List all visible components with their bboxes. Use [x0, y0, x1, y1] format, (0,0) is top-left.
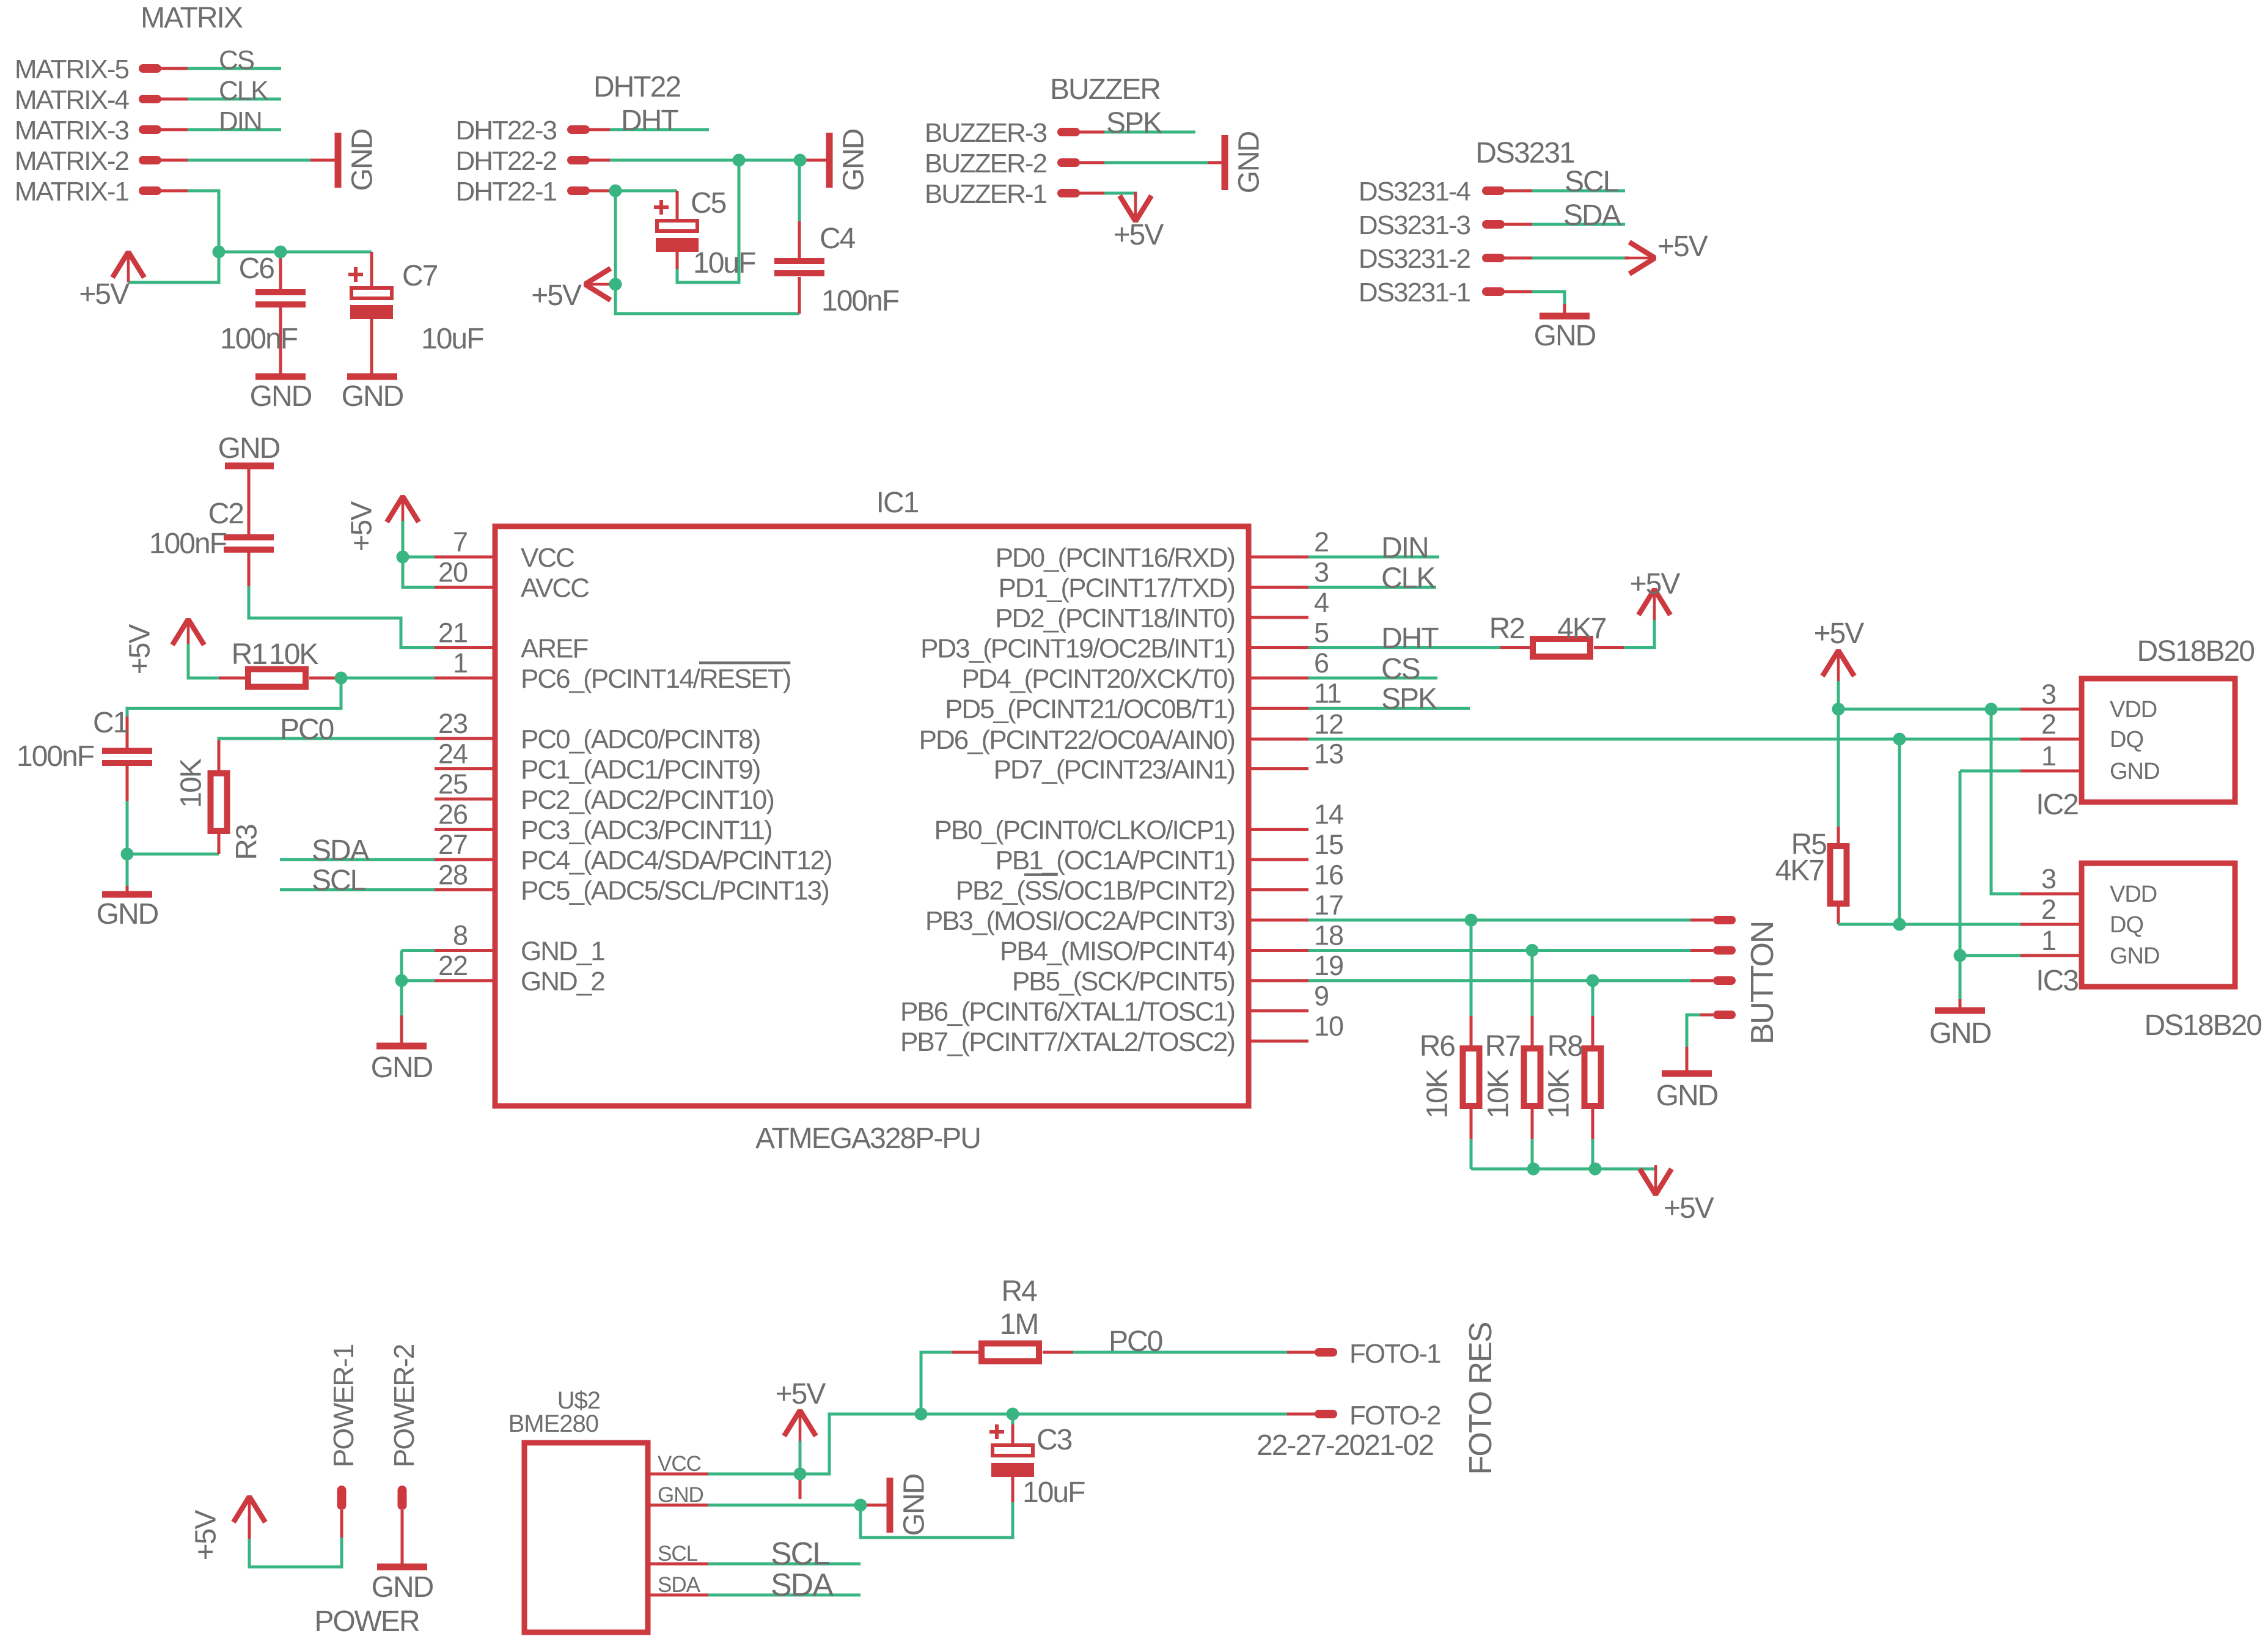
svg-text:17: 17: [1314, 889, 1343, 921]
svg-text:AVCC: AVCC: [521, 573, 589, 603]
svg-text:MATRIX-3: MATRIX-3: [15, 116, 129, 145]
svg-text:PB2_(SS/OC1B/PCINT2): PB2_(SS/OC1B/PCINT2): [956, 876, 1235, 906]
svg-text:GND: GND: [218, 432, 280, 465]
svg-text:R2: R2: [1489, 613, 1525, 645]
svg-text:13: 13: [1314, 738, 1343, 770]
svg-text:GND: GND: [838, 129, 870, 191]
svg-text:28: 28: [438, 860, 468, 891]
svg-text:PC5_(ADC5/SCL/PCINT13): PC5_(ADC5/SCL/PCINT13): [521, 876, 829, 906]
svg-text:GND: GND: [347, 129, 379, 191]
svg-text:100nF: 100nF: [17, 740, 94, 773]
svg-text:3: 3: [1314, 557, 1329, 588]
svg-text:22-27-2021-02: 22-27-2021-02: [1257, 1429, 1433, 1462]
svg-text:GND: GND: [2110, 943, 2159, 969]
svg-text:GND: GND: [2110, 759, 2159, 784]
svg-text:PD4_(PCINT20/XCK/T0): PD4_(PCINT20/XCK/T0): [961, 664, 1235, 694]
svg-text:PC3_(ADC3/PCINT11): PC3_(ADC3/PCINT11): [521, 816, 772, 845]
svg-text:16: 16: [1314, 860, 1343, 891]
svg-text:PD5_(PCINT21/OC0B/T1): PD5_(PCINT21/OC0B/T1): [945, 694, 1235, 724]
svg-text:DS3231-1: DS3231-1: [1359, 278, 1470, 308]
svg-text:3: 3: [2041, 679, 2056, 710]
svg-text:PC6_(PCINT14/RESET): PC6_(PCINT14/RESET): [521, 664, 790, 694]
svg-text:15: 15: [1314, 829, 1343, 860]
svg-text:DS3231-3: DS3231-3: [1359, 210, 1470, 240]
svg-text:18: 18: [1314, 920, 1343, 951]
svg-text:DS18B20: DS18B20: [2137, 635, 2255, 668]
svg-text:100nF: 100nF: [821, 285, 899, 317]
svg-text:DS3231-2: DS3231-2: [1359, 244, 1470, 274]
svg-text:C5: C5: [691, 187, 726, 219]
svg-text:BUZZER-3: BUZZER-3: [925, 118, 1047, 148]
svg-text:PC0_(ADC0/PCINT8): PC0_(ADC0/PCINT8): [521, 724, 760, 754]
svg-text:SPK: SPK: [1106, 107, 1162, 139]
svg-text:11: 11: [1314, 678, 1341, 709]
svg-text:10K: 10K: [1543, 1069, 1576, 1118]
svg-text:DHT22: DHT22: [593, 71, 680, 103]
svg-text:GND: GND: [342, 380, 403, 413]
svg-text:10: 10: [1314, 1011, 1343, 1042]
svg-text:4K7: 4K7: [1775, 855, 1824, 887]
svg-text:VDD: VDD: [2110, 882, 2157, 907]
svg-text:DQ: DQ: [2110, 912, 2143, 938]
svg-text:+5V: +5V: [1114, 219, 1164, 251]
svg-text:C6: C6: [239, 252, 274, 285]
svg-text:10K: 10K: [269, 638, 318, 671]
svg-text:MATRIX-1: MATRIX-1: [15, 177, 129, 207]
svg-text:DHT22-1: DHT22-1: [456, 177, 557, 207]
svg-text:DHT22-2: DHT22-2: [456, 146, 557, 176]
svg-text:PB6_(PCINT6/XTAL1/TOSC1): PB6_(PCINT6/XTAL1/TOSC1): [900, 997, 1235, 1027]
svg-text:2: 2: [2041, 709, 2056, 740]
svg-text:10K: 10K: [1483, 1069, 1515, 1118]
svg-text:21: 21: [438, 617, 468, 649]
svg-text:+5V: +5V: [124, 624, 156, 675]
svg-text:SDA: SDA: [312, 834, 370, 867]
svg-text:SPK: SPK: [1381, 683, 1437, 715]
svg-text:CS: CS: [219, 45, 254, 75]
svg-text:PB1_(OC1A/PCINT1): PB1_(OC1A/PCINT1): [996, 845, 1235, 875]
svg-text:MATRIX-5: MATRIX-5: [15, 54, 129, 84]
svg-text:100nF: 100nF: [220, 323, 298, 355]
svg-text:2: 2: [1314, 526, 1329, 558]
svg-text:PD1_(PCINT17/TXD): PD1_(PCINT17/TXD): [998, 573, 1235, 603]
svg-text:PB5_(SCK/PCINT5): PB5_(SCK/PCINT5): [1012, 967, 1235, 996]
svg-text:PC1_(ADC1/PCINT9): PC1_(ADC1/PCINT9): [521, 755, 760, 785]
svg-text:R8: R8: [1547, 1030, 1583, 1063]
svg-text:C2: C2: [208, 498, 244, 530]
svg-text:DS18B20: DS18B20: [2145, 1009, 2262, 1042]
svg-text:R3: R3: [231, 825, 263, 860]
svg-text:8: 8: [453, 920, 468, 951]
svg-text:ATMEGA328P-PU: ATMEGA328P-PU: [755, 1122, 980, 1155]
svg-text:SDA: SDA: [1563, 199, 1621, 232]
svg-text:4K7: 4K7: [1557, 613, 1606, 645]
svg-text:GND: GND: [1534, 320, 1596, 352]
svg-text:BME280: BME280: [508, 1410, 598, 1437]
svg-text:POWER: POWER: [314, 1605, 419, 1636]
svg-text:24: 24: [438, 738, 468, 770]
svg-text:POWER-1: POWER-1: [328, 1344, 359, 1467]
svg-text:SCL: SCL: [1565, 166, 1619, 198]
svg-text:PD3_(PCINT19/OC2B/INT1): PD3_(PCINT19/OC2B/INT1): [920, 634, 1235, 664]
svg-text:FOTO-1: FOTO-1: [1349, 1339, 1440, 1369]
svg-text:BUZZER-1: BUZZER-1: [925, 179, 1047, 209]
svg-text:SCL: SCL: [658, 1542, 698, 1566]
svg-text:CS: CS: [1381, 653, 1420, 685]
svg-text:23: 23: [438, 708, 468, 739]
svg-text:FOTO-2: FOTO-2: [1349, 1401, 1440, 1431]
svg-text:PB3_(MOSI/OC2A/PCINT3): PB3_(MOSI/OC2A/PCINT3): [925, 906, 1235, 936]
svg-text:4: 4: [1314, 587, 1329, 618]
svg-text:+5V: +5V: [79, 278, 130, 311]
svg-text:VCC: VCC: [521, 543, 574, 573]
svg-text:PB7_(PCINT7/XTAL2/TOSC2): PB7_(PCINT7/XTAL2/TOSC2): [900, 1027, 1235, 1057]
svg-text:+5V: +5V: [346, 501, 378, 552]
svg-text:100nF: 100nF: [149, 528, 227, 560]
svg-text:DIN: DIN: [1381, 532, 1428, 564]
svg-text:PC0: PC0: [1109, 1325, 1162, 1358]
svg-text:GND: GND: [372, 1571, 433, 1604]
svg-text:26: 26: [438, 799, 468, 830]
svg-text:BUZZER: BUZZER: [1050, 73, 1160, 106]
svg-text:3: 3: [2041, 863, 2056, 894]
svg-text:C3: C3: [1037, 1424, 1072, 1456]
svg-text:10K: 10K: [1422, 1069, 1454, 1118]
svg-text:+5V: +5V: [1630, 568, 1681, 600]
svg-text:GND: GND: [1929, 1017, 1991, 1050]
svg-text:GND: GND: [898, 1474, 931, 1536]
svg-text:10uF: 10uF: [421, 323, 483, 355]
svg-text:SDA: SDA: [658, 1573, 701, 1597]
svg-text:MATRIX-4: MATRIX-4: [15, 85, 130, 115]
svg-text:BUZZER-2: BUZZER-2: [925, 149, 1047, 179]
svg-text:1: 1: [2041, 925, 2056, 956]
svg-text:MATRIX: MATRIX: [141, 2, 243, 34]
svg-text:+5V: +5V: [1657, 230, 1708, 263]
svg-text:R4: R4: [1001, 1275, 1037, 1308]
svg-text:1: 1: [2041, 740, 2056, 772]
svg-text:7: 7: [453, 526, 468, 558]
svg-text:R6: R6: [1420, 1030, 1455, 1063]
svg-text:2: 2: [2041, 894, 2056, 925]
svg-text:C7: C7: [402, 260, 438, 292]
svg-text:GND_2: GND_2: [521, 967, 604, 996]
svg-text:R1: R1: [232, 638, 267, 671]
svg-text:PB0_(PCINT0/CLKO/ICP1): PB0_(PCINT0/CLKO/ICP1): [934, 816, 1235, 845]
svg-text:GND: GND: [658, 1483, 703, 1507]
svg-text:5: 5: [1314, 617, 1329, 649]
svg-text:GND_1: GND_1: [521, 937, 604, 967]
svg-text:IC2: IC2: [2036, 789, 2078, 821]
svg-text:20: 20: [438, 557, 468, 588]
svg-text:PC2_(ADC2/PCINT10): PC2_(ADC2/PCINT10): [521, 785, 774, 815]
svg-text:10K: 10K: [175, 758, 208, 808]
svg-text:10uF: 10uF: [1022, 1476, 1085, 1509]
svg-text:+5V: +5V: [776, 1378, 826, 1410]
svg-text:PD2_(PCINT18/INT0): PD2_(PCINT18/INT0): [995, 603, 1235, 633]
svg-text:DHT: DHT: [621, 105, 678, 137]
svg-text:DS3231-4: DS3231-4: [1359, 177, 1471, 207]
svg-text:BUTTON: BUTTON: [1745, 922, 1780, 1045]
svg-text:VCC: VCC: [658, 1452, 701, 1476]
svg-text:SDA: SDA: [771, 1567, 834, 1603]
svg-text:+5V: +5V: [1664, 1192, 1714, 1225]
svg-text:DS3231: DS3231: [1475, 137, 1574, 169]
svg-text:R7: R7: [1485, 1030, 1521, 1063]
svg-text:CLK: CLK: [1381, 562, 1436, 595]
svg-text:IC3: IC3: [2036, 965, 2078, 997]
svg-text:1: 1: [453, 647, 468, 679]
svg-text:PC0: PC0: [280, 713, 334, 746]
svg-text:GND: GND: [1233, 131, 1266, 193]
svg-text:+5V: +5V: [1814, 617, 1865, 650]
svg-text:PD6_(PCINT22/OC0A/AIN0): PD6_(PCINT22/OC0A/AIN0): [919, 725, 1235, 755]
svg-text:PB4_(MISO/PCINT4): PB4_(MISO/PCINT4): [1000, 937, 1235, 967]
svg-text:GND: GND: [371, 1052, 433, 1084]
svg-text:19: 19: [1314, 950, 1343, 981]
svg-text:SCL: SCL: [771, 1536, 829, 1572]
svg-text:IC1: IC1: [876, 487, 919, 519]
svg-text:1M: 1M: [1000, 1308, 1038, 1341]
svg-text:DHT22-3: DHT22-3: [456, 116, 557, 145]
svg-text:25: 25: [438, 768, 468, 800]
svg-text:VDD: VDD: [2110, 697, 2157, 723]
svg-text:C4: C4: [820, 223, 856, 255]
svg-text:DHT: DHT: [1381, 622, 1439, 655]
svg-text:+5V: +5V: [190, 1510, 222, 1561]
svg-text:POWER-2: POWER-2: [388, 1344, 420, 1467]
svg-text:10uF: 10uF: [693, 247, 755, 279]
svg-text:DIN: DIN: [219, 106, 262, 136]
svg-text:PC4_(ADC4/SDA/PCINT12): PC4_(ADC4/SDA/PCINT12): [521, 845, 832, 875]
svg-text:27: 27: [438, 829, 468, 860]
svg-text:22: 22: [438, 950, 468, 981]
svg-text:GND: GND: [1656, 1080, 1718, 1112]
svg-text:6: 6: [1314, 647, 1329, 679]
svg-text:AREF: AREF: [521, 634, 588, 664]
svg-text:GND: GND: [250, 380, 312, 413]
svg-text:14: 14: [1314, 799, 1343, 830]
svg-text:DQ: DQ: [2110, 727, 2143, 753]
svg-text:C1: C1: [93, 707, 128, 739]
svg-text:FOTO RES: FOTO RES: [1463, 1322, 1499, 1475]
svg-text:GND: GND: [97, 898, 158, 930]
svg-text:CLK: CLK: [219, 76, 268, 106]
svg-text:9: 9: [1314, 981, 1329, 1012]
svg-text:SCL: SCL: [312, 864, 366, 897]
svg-text:PD7_(PCINT23/AIN1): PD7_(PCINT23/AIN1): [994, 755, 1235, 785]
svg-text:PD0_(PCINT16/RXD): PD0_(PCINT16/RXD): [996, 543, 1235, 573]
svg-text:MATRIX-2: MATRIX-2: [15, 146, 129, 176]
svg-text:+5V: +5V: [531, 279, 582, 312]
svg-text:12: 12: [1314, 709, 1343, 740]
